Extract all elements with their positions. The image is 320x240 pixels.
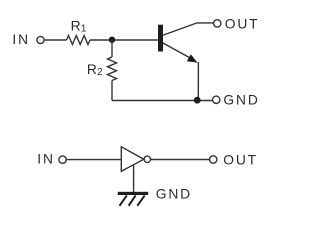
transistor Q1 emitter arrow (187, 54, 198, 62)
svg-text:OUT: OUT (223, 153, 258, 168)
transistor Q1 collector (163, 23, 198, 36)
wire IN terminal to R1 (44, 39, 66, 41)
svg-text:R1: R1 (71, 18, 87, 34)
svg-text:GND: GND (156, 186, 192, 201)
terminal IN (top) (37, 36, 44, 43)
wire collector to OUT terminal (197, 22, 213, 24)
inverter U1 triangle (121, 147, 144, 172)
inverter U1 bubble (144, 156, 150, 162)
transistor Q1 emitter (163, 43, 195, 60)
wire IN terminal to inverter (66, 159, 121, 161)
wire R2 to bottom rail (111, 81, 113, 101)
svg-text:OUT: OUT (225, 17, 260, 32)
ground (118, 192, 148, 206)
transistor Q1 base bar (158, 25, 163, 52)
wire emitter to bottom rail (197, 62, 199, 101)
wire inverter to ground (133, 165, 135, 193)
svg-text:GND: GND (223, 93, 259, 108)
wire inverter to OUT terminal (151, 159, 210, 161)
terminal OUT (top) (214, 20, 221, 27)
resistor R1 (67, 36, 91, 45)
wire junction to R2 (111, 40, 113, 57)
resistor R2 (108, 57, 117, 81)
wire R1 to transistor base (90, 39, 158, 41)
svg-text:IN: IN (12, 32, 30, 47)
terminal OUT (bottom) (210, 156, 217, 163)
terminal GND (top) (213, 96, 220, 103)
svg-text:IN: IN (37, 152, 55, 167)
node base junction (109, 37, 115, 43)
node emitter rail junction (194, 97, 201, 104)
wire bottom rail (112, 100, 212, 102)
svg-text:R2: R2 (87, 62, 103, 78)
terminal IN (bottom) (59, 156, 66, 163)
